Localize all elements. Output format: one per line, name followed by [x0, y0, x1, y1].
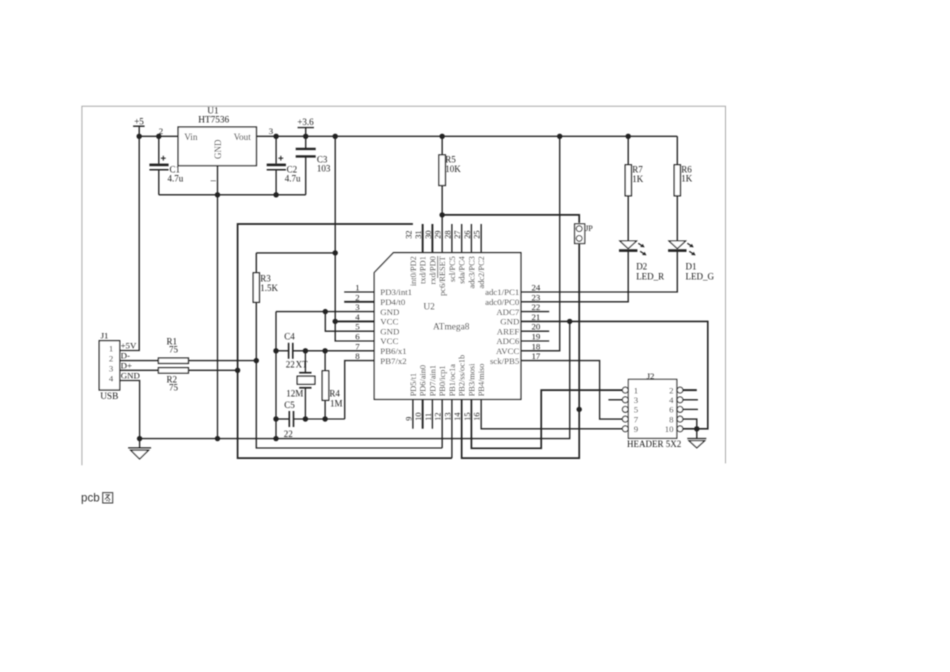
connector J2 HEADER 5X2: [622, 371, 683, 449]
svg-text:PD3/int1: PD3/int1: [380, 287, 412, 297]
wire +3.6V to VCC pins: [333, 134, 375, 341]
svg-text:VCC: VCC: [380, 336, 398, 346]
svg-text:–: –: [210, 176, 217, 187]
svg-text:1K: 1K: [681, 174, 693, 184]
resistor R3: [253, 253, 335, 302]
svg-text:4.7u: 4.7u: [285, 174, 301, 184]
mcu pin1 PD3 stub: [344, 291, 374, 293]
wire J1 GND to ground: [120, 381, 143, 448]
svg-text:103: 103: [317, 164, 331, 174]
mcu bottom pin numbers: [404, 412, 481, 421]
svg-text:21: 21: [532, 312, 541, 322]
svg-text:ADC6: ADC6: [496, 336, 520, 346]
svg-text:J1: J1: [101, 331, 109, 341]
wire RESET net: [439, 186, 579, 253]
svg-text:22: 22: [284, 429, 293, 439]
svg-text:6: 6: [669, 405, 674, 415]
svg-text:PD7/ain1: PD7/ain1: [428, 365, 437, 396]
svg-text:29: 29: [434, 231, 443, 239]
svg-text:D+: D+: [121, 360, 132, 370]
resistor R6: [674, 136, 693, 241]
svg-text:2: 2: [669, 385, 673, 395]
capacitor C2: [267, 134, 301, 198]
svg-text:10K: 10K: [445, 164, 461, 174]
wire XTAL2 to pin8 row: [294, 361, 374, 422]
svg-text:PB6/x1: PB6/x1: [380, 346, 406, 356]
svg-text:17: 17: [532, 351, 541, 361]
led D2 LED_R: [619, 241, 664, 282]
svg-text:PB2/ss/oc1b: PB2/ss/oc1b: [458, 355, 467, 397]
svg-text:R4: R4: [329, 388, 340, 398]
svg-text:PB7/x2: PB7/x2: [380, 356, 406, 366]
wire XTAL1 pin7 row: [293, 348, 374, 353]
svg-text:12: 12: [434, 413, 443, 421]
svg-text:3: 3: [269, 126, 274, 136]
svg-text:+3.6: +3.6: [297, 117, 314, 127]
crystal XT 12M: [286, 351, 315, 419]
svg-text:PD5/t1: PD5/t1: [409, 373, 418, 397]
svg-text:20: 20: [532, 322, 541, 332]
svg-text:27: 27: [453, 231, 462, 239]
svg-text:24: 24: [532, 283, 541, 293]
svg-text:VCC: VCC: [380, 317, 398, 327]
resistor R7: [625, 134, 644, 241]
svg-text:4: 4: [355, 312, 360, 322]
svg-text:4.7u: 4.7u: [168, 174, 184, 184]
svg-text:13: 13: [443, 413, 452, 421]
svg-text:1: 1: [634, 385, 638, 395]
svg-text:2: 2: [159, 126, 163, 136]
wire VCC pin4 row: [335, 320, 374, 322]
reset overline: [437, 256, 439, 278]
svg-text:PB3/mosi: PB3/mosi: [467, 363, 476, 396]
svg-text:1: 1: [355, 283, 359, 293]
mcu top pin labels: [409, 255, 486, 295]
svg-text:26: 26: [463, 231, 472, 239]
svg-text:3: 3: [634, 395, 639, 405]
svg-text:PD6/ain0: PD6/ain0: [419, 365, 428, 396]
picture frame border: [82, 106, 726, 465]
wire AVCC to rail: [521, 134, 563, 351]
svg-text:25: 25: [473, 231, 482, 239]
svg-text:1K: 1K: [632, 174, 644, 184]
wire D+ net to INT0 and PB1: [238, 224, 452, 458]
capacitor C4: [276, 331, 295, 369]
wire GND pin21 row to J2 pin10: [521, 321, 708, 431]
svg-text:32: 32: [404, 231, 413, 239]
wire +5V drop to J1 pin1: [120, 136, 140, 350]
capacitor C1: [149, 134, 183, 195]
mcu top stubs pins 31 30 28 27 26 25: [423, 224, 482, 253]
node rail-start junction: [137, 134, 142, 139]
svg-text:1.5K: 1.5K: [260, 283, 278, 293]
svg-text:AREF: AREF: [497, 326, 520, 336]
svg-text:2: 2: [355, 292, 359, 302]
svg-text:3: 3: [355, 302, 360, 312]
svg-text:int0/PD2: int0/PD2: [409, 256, 418, 286]
wire U1 GND lead down: [210, 166, 220, 442]
wire J2 pin8 to ground: [683, 419, 697, 438]
svg-text:5: 5: [634, 405, 639, 415]
svg-text:8: 8: [669, 414, 674, 424]
svg-text:4: 4: [669, 395, 674, 405]
resistor R2: [120, 368, 241, 393]
svg-text:AVCC: AVCC: [496, 346, 519, 356]
svg-text:Vout: Vout: [234, 132, 252, 142]
svg-text:GND: GND: [500, 317, 519, 327]
svg-text:Vin: Vin: [184, 132, 198, 142]
svg-text:8: 8: [355, 351, 360, 361]
svg-text:7: 7: [634, 414, 639, 424]
wire R3 bottom / D- net down to PB0: [254, 302, 443, 448]
svg-text:ATmega8: ATmega8: [433, 322, 470, 332]
svg-text:LED_G: LED_G: [686, 271, 715, 281]
wire GND link pins 3 and 5: [273, 309, 374, 441]
svg-text:adc0/PC0: adc0/PC0: [485, 297, 520, 307]
svg-text:txd/PD1: txd/PD1: [419, 256, 428, 284]
svg-text:PB4/miso: PB4/miso: [477, 364, 486, 397]
svg-text:9: 9: [634, 424, 639, 434]
connector J1 USB: [99, 331, 140, 403]
svg-text:C4: C4: [284, 331, 295, 341]
stub J2 pin6: [683, 408, 698, 410]
svg-text:10: 10: [665, 424, 674, 434]
svg-text:22: 22: [532, 302, 541, 312]
svg-text:18: 18: [532, 341, 541, 351]
svg-text:USB: USB: [100, 392, 118, 402]
wire pin16 PB4 MISO to J2 pin9: [481, 399, 622, 428]
svg-text:D1: D1: [686, 262, 697, 272]
svg-text:75: 75: [169, 383, 179, 393]
mcu pin2 PD4 stub: [344, 301, 374, 303]
svg-text:adc1/PC1: adc1/PC1: [485, 287, 519, 297]
svg-text:pcb: pcb: [81, 492, 100, 505]
wire pin14 PB2 to J2 pin5 net: [462, 244, 582, 458]
svg-text:5: 5: [355, 322, 360, 332]
mcu left pin numbers: [355, 283, 360, 362]
mcu U2 ATmega8 outline: [374, 253, 521, 400]
stub ADC7 pin22: [521, 311, 549, 313]
svg-text:J2: J2: [647, 371, 655, 381]
led D1 LED_G: [668, 241, 714, 282]
svg-text:GND: GND: [380, 326, 399, 336]
svg-text:PB1/oc1a: PB1/oc1a: [448, 364, 457, 397]
svg-text:LED_R: LED_R: [636, 271, 664, 281]
svg-text:1M: 1M: [330, 399, 343, 409]
svg-text:28: 28: [443, 231, 452, 239]
wire regulator ground bar C1-C2-C3: [159, 194, 306, 196]
wire Vout rail: [256, 135, 677, 137]
svg-text:19: 19: [532, 332, 541, 342]
svg-text:HT7536: HT7536: [198, 116, 229, 126]
svg-text:9: 9: [404, 417, 413, 421]
ground symbol left: [128, 448, 151, 459]
svg-text:sck/PB5: sck/PB5: [490, 356, 520, 366]
svg-text:adc3/PC3: adc3/PC3: [467, 256, 476, 288]
svg-text:GND: GND: [121, 370, 140, 380]
svg-text:U2: U2: [423, 302, 435, 312]
mcu bottom pin labels: [409, 355, 486, 397]
svg-text:4: 4: [109, 374, 114, 384]
capacitor C3: [296, 134, 331, 195]
svg-text:D-: D-: [121, 351, 130, 361]
power +3.6 symbol: [297, 117, 314, 136]
svg-text:75: 75: [169, 345, 179, 355]
svg-text:+5: +5: [134, 116, 144, 126]
resistor R1: [120, 337, 257, 364]
wire PC0 pin23 to LED D2: [521, 251, 628, 302]
svg-text:GND: GND: [213, 139, 223, 159]
svg-text:12M: 12M: [286, 389, 303, 399]
svg-text:PD4/t0: PD4/t0: [380, 297, 406, 307]
svg-text:2: 2: [109, 354, 113, 364]
svg-text:D2: D2: [636, 262, 647, 272]
mcu right pin numbers: [532, 283, 541, 362]
svg-text:R5: R5: [445, 155, 456, 165]
svg-text:pc6/RESET: pc6/RESET: [438, 256, 447, 296]
svg-text:scl/PC5: scl/PC5: [448, 256, 457, 282]
stub J2 pin4: [683, 399, 698, 401]
mcu right pin labels: [485, 287, 520, 366]
wire pin15 PB3 MOSI to J2 pin1: [471, 390, 622, 448]
stub AREF pin20: [521, 330, 549, 332]
resistor R5: [439, 134, 461, 186]
svg-text:+5V: +5V: [121, 340, 137, 350]
svg-text:3: 3: [109, 363, 114, 373]
mcu top pin numbers: [404, 231, 481, 239]
wire SCK pin17 to J2 pin7: [521, 361, 623, 420]
svg-text:23: 23: [532, 292, 541, 302]
wire GND bus bottom: [140, 319, 573, 439]
svg-text:rxd/PD0: rxd/PD0: [428, 256, 437, 284]
svg-text:sda/PC4: sda/PC4: [458, 255, 467, 284]
svg-text:1: 1: [109, 344, 113, 354]
stub J2 pin2: [683, 389, 697, 391]
svg-text:adc2/PC2: adc2/PC2: [477, 256, 486, 288]
stub J2 pin3: [608, 399, 622, 401]
wire pin13 PB1 to D+ line: [451, 399, 453, 458]
svg-text:7: 7: [355, 341, 360, 351]
wire +5V rail left segment: [139, 135, 178, 137]
mcu bottom stubs pins 9 10 11: [413, 399, 433, 428]
svg-text:HEADER 5X2: HEADER 5X2: [627, 439, 681, 449]
svg-text:11: 11: [424, 413, 433, 421]
svg-text:16: 16: [473, 413, 482, 421]
caption chinese character tu: [103, 493, 113, 503]
ground symbol right: [687, 439, 706, 448]
svg-text:JP: JP: [585, 224, 593, 233]
svg-text:GND: GND: [380, 307, 399, 317]
wire PC1 pin24 to LED D1: [521, 251, 677, 292]
svg-text:C5: C5: [284, 400, 295, 410]
regulator U1 HT7536: [159, 107, 274, 166]
power +5 symbol: [133, 116, 145, 136]
svg-text:XT: XT: [296, 360, 308, 370]
wire pin12 PB0 to D- line: [441, 399, 443, 448]
svg-text:22: 22: [286, 360, 295, 370]
caption pcb text: [81, 492, 100, 505]
stub ADC6 pin19: [521, 340, 549, 342]
capacitor C5: [276, 400, 295, 439]
svg-text:6: 6: [355, 332, 360, 342]
svg-text:ADC7: ADC7: [496, 307, 520, 317]
svg-text:PB0/icp1: PB0/icp1: [438, 365, 447, 396]
jumper JP: [575, 224, 594, 244]
mcu left pin labels: [380, 287, 412, 366]
resistor R4: [322, 351, 342, 419]
